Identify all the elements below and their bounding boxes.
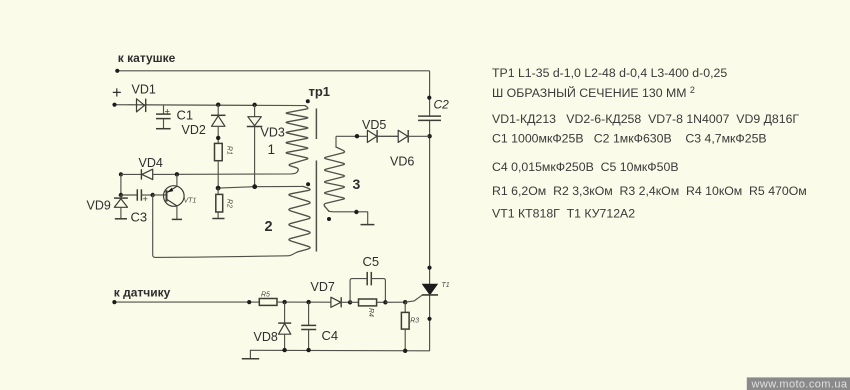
wire right rail lower: [429, 295, 431, 351]
svg-text:R1: R1: [226, 146, 233, 155]
wire to R3 node: [385, 301, 405, 303]
core of transformer: [315, 109, 317, 252]
svg-text:к датчику: к датчику: [114, 286, 171, 300]
wire VD4 to winding1 bottom: [153, 172, 298, 175]
svg-text:VD5: VD5: [362, 118, 386, 132]
diode VD5: [367, 130, 377, 143]
label TP1: [309, 84, 331, 99]
svg-text:C3: C3: [131, 209, 148, 224]
inductor winding 3: [324, 147, 344, 211]
wire left vertical to VD9: [120, 174, 122, 195]
node VD8 bottom junction: [282, 348, 286, 352]
svg-text:+: +: [112, 84, 122, 102]
transistor VT1: [164, 174, 185, 219]
note line 3: [492, 112, 799, 126]
capacitor C5: [350, 272, 385, 302]
node C3-VD9 junction: [119, 193, 123, 197]
inductor winding 2: [289, 186, 310, 252]
node between VD2 and R1: [216, 136, 220, 140]
ground chassis of winding3: [361, 224, 375, 226]
wire base node to winding2 bottom: [153, 195, 298, 257]
svg-text:VD6: VD6: [390, 155, 414, 169]
diode VD3: [247, 117, 262, 127]
note line 1: [492, 66, 727, 80]
wire VD3 top lead: [254, 105, 256, 117]
node C4 bottom junction: [306, 348, 310, 352]
svg-text:3: 3: [353, 176, 361, 192]
node R2 top junction: [216, 186, 221, 191]
svg-text:VD2: VD2: [182, 123, 206, 137]
capacitor C1: [156, 105, 171, 129]
svg-text:R4: R4: [367, 308, 374, 317]
label R2: [226, 199, 233, 208]
node winding1 polarity dot: [306, 99, 310, 103]
label R5: [261, 291, 270, 298]
svg-text:VD8: VD8: [254, 330, 278, 344]
svg-text:VD7: VD7: [311, 280, 335, 294]
resistor R1: [215, 143, 223, 160]
resistor R3: [401, 302, 409, 351]
node sensor left end dot: [112, 300, 116, 304]
wire VD6 to rail: [408, 135, 429, 137]
svg-text:www.moto.com.ua: www.moto.com.ua: [751, 379, 848, 390]
diode VD7: [331, 297, 350, 307]
wire winding2 top lead: [218, 186, 303, 188]
label R3: [410, 318, 419, 325]
diode VD4: [141, 169, 152, 179]
node C5 left junction: [348, 300, 352, 304]
node top-left end dot: [115, 69, 119, 73]
wire VD3 to winding2 node: [254, 127, 256, 187]
node on winding3 bottom lead: [354, 210, 358, 214]
node VT1 base junction: [151, 193, 155, 197]
resistor R4: [350, 299, 385, 306]
svg-text:T1: T1: [442, 282, 450, 289]
wire VD4 anode side: [121, 173, 141, 175]
label plus near VD1: [112, 84, 122, 102]
label C3: [131, 209, 148, 224]
node VT1 emitter junction: [175, 172, 179, 176]
label to coil terminal: [118, 51, 176, 65]
label winding 1 number: [268, 142, 276, 157]
wire bottom rail: [250, 349, 429, 352]
diode VD6: [398, 130, 408, 143]
ground chassis bottom-left: [242, 350, 259, 359]
label plus of C3: [143, 194, 148, 204]
svg-text:C1: C1: [177, 107, 194, 122]
label plus of C1: [165, 107, 170, 117]
svg-text:тр1: тр1: [309, 84, 331, 99]
wire winding3 bottom lead: [329, 211, 368, 224]
note line 7: [492, 206, 635, 220]
svg-text:R1 6,2Ом R2 3,3кОм R3 2,4кОм: R1 6,2Ом R2 3,3кОм R3 2,4кОм R4 10кОм R5…: [492, 184, 807, 198]
label VD7: [311, 280, 335, 294]
label VD6: [390, 155, 414, 169]
node right rail below T1: [427, 317, 431, 321]
svg-text:VD4: VD4: [139, 156, 163, 170]
svg-text:1: 1: [268, 142, 276, 157]
diode VD8: [278, 302, 291, 350]
node R3 top junction: [403, 300, 407, 304]
svg-text:С1 1000мкФ25В С2 1мкФ630В: С1 1000мкФ25В С2 1мкФ630В С3 4,7мкФ25В: [492, 132, 767, 146]
capacitor C2: [418, 116, 441, 120]
diode VD9: [114, 195, 128, 219]
label R4: [367, 308, 374, 317]
wire R5 to VD7: [277, 301, 331, 303]
capacitor C4: [301, 302, 316, 350]
node R3 bottom junction: [403, 349, 407, 353]
wire sensor line: [114, 301, 259, 303]
svg-text:VT1: VT1: [184, 198, 197, 205]
capacitor C3: [121, 189, 153, 200]
label VD8: [254, 330, 278, 344]
wire top rail to coil: [117, 70, 429, 72]
note line 4: [492, 132, 767, 146]
node VD3 bottom junction: [252, 184, 257, 189]
diode VD1: [137, 99, 146, 113]
label T1: [442, 282, 450, 289]
label VT1: [184, 198, 197, 205]
wire VT1 base lead: [153, 194, 167, 196]
node right rail above T1: [427, 266, 431, 270]
svg-text:2: 2: [265, 219, 273, 235]
svg-text:C4: C4: [322, 328, 339, 343]
wire VD2 to R1: [217, 126, 219, 143]
wire main horizontal bus: [115, 104, 306, 107]
svg-text:C2: C2: [434, 98, 450, 112]
label winding 3 number: [353, 176, 361, 192]
wire VD2 top lead: [217, 105, 219, 116]
node VD5 left junction: [355, 134, 359, 138]
node winding2 polarity dot: [306, 182, 310, 186]
label VD5: [362, 118, 386, 132]
svg-text:VD1: VD1: [132, 83, 156, 97]
diode VD2: [211, 115, 226, 126]
label C1: [177, 107, 194, 122]
note line 2: [492, 85, 695, 100]
label R1: [226, 146, 233, 155]
inductor winding 1: [286, 106, 308, 172]
thyristor T1: [422, 284, 438, 295]
label VD2: [182, 123, 206, 137]
wire R1 to winding2 node: [217, 161, 219, 188]
node VD4 line left dot: [119, 172, 123, 176]
node on right rail above C2: [427, 96, 431, 100]
node C4 top junction: [306, 300, 310, 304]
node winding3 polarity dot: [327, 217, 331, 221]
label VD3: [261, 126, 285, 140]
node VD3 top junction: [252, 103, 256, 107]
svg-text:ТР1 L1-35 d-1,0 L2-48 d-0,4 L3: ТР1 L1-35 d-1,0 L2-48 d-0,4 L3-400 d-0,2…: [492, 66, 727, 80]
note line 6: [492, 184, 807, 198]
svg-text:R5: R5: [261, 291, 270, 298]
label C2: [434, 98, 450, 112]
svg-text:VD9: VD9: [87, 199, 111, 213]
svg-text:C5: C5: [363, 254, 380, 269]
label C5: [363, 254, 380, 269]
watermark bar: [747, 377, 850, 390]
node main bus left end dot: [112, 103, 116, 107]
resistor R5: [259, 299, 277, 306]
node VD8 top junction: [282, 300, 286, 304]
node VD2 top junction: [216, 103, 220, 107]
resistor R2: [212, 188, 224, 218]
wire right rail mid: [429, 120, 431, 284]
wire winding3 to VD5: [336, 135, 367, 137]
label C4: [322, 328, 339, 343]
wire winding3 top lead: [335, 136, 337, 147]
svg-text:R3: R3: [410, 318, 419, 325]
svg-text:С4 0,015мкФ250В С5 10мкФ50В: С4 0,015мкФ250В С5 10мкФ50В: [492, 160, 679, 174]
wire gate of T1: [405, 295, 422, 302]
svg-text:Ш ОБРАЗНЫЙ СЕЧЕНИЕ 130 ММ 2: Ш ОБРАЗНЫЙ СЕЧЕНИЕ 130 ММ 2: [492, 85, 695, 100]
note line 5: [492, 160, 679, 174]
svg-text:VD3: VD3: [261, 126, 285, 140]
svg-text:VD1-КД213 VD2-6-КД258 VD7-8: VD1-КД213 VD2-6-КД258 VD7-8 1N4007 VD9 Д…: [492, 112, 799, 126]
label VD9: [87, 199, 111, 213]
wire VD5 to VD6: [377, 135, 398, 137]
svg-text:+: +: [165, 107, 170, 117]
svg-text:+: +: [143, 194, 148, 204]
wire right rail upper: [429, 71, 431, 116]
label VD1: [132, 83, 156, 97]
label winding 2 number: [265, 219, 273, 235]
svg-text:VT1 КТ818Г Т1 КУ712А2: VT1 КТ818Г Т1 КУ712А2: [492, 206, 635, 220]
node C5 right junction: [383, 300, 387, 304]
node VD6-right rail junction: [427, 134, 431, 138]
label VD4: [139, 156, 163, 170]
label to sensor terminal: [114, 286, 171, 300]
svg-text:R2: R2: [226, 199, 233, 208]
node before R5: [247, 300, 251, 304]
svg-text:к катушке: к катушке: [118, 51, 176, 65]
